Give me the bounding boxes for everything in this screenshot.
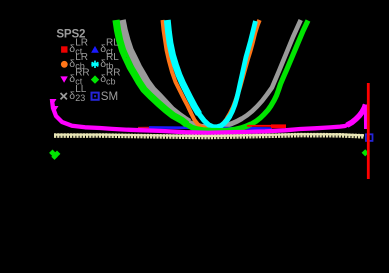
svg-text:23: 23 bbox=[75, 93, 85, 103]
svg-text:SM: SM bbox=[101, 90, 118, 103]
svg-text:cb: cb bbox=[106, 76, 116, 86]
